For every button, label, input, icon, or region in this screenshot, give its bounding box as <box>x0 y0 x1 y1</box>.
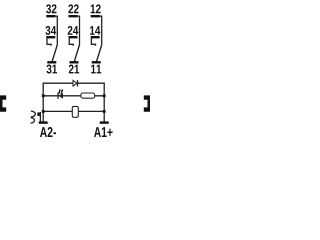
wire top row <box>43 82 105 84</box>
terminal bar A2 <box>39 121 48 123</box>
contact 2 terminal bar 22 <box>69 15 78 17</box>
relay coil K1 <box>72 106 78 117</box>
right edge adjacent module mark <box>144 95 150 111</box>
contact 2 moving arm <box>74 45 79 62</box>
terminal label A1+ <box>94 127 113 137</box>
contact 2 terminal label 21 <box>69 65 79 74</box>
junction right middle <box>103 94 106 97</box>
contact 2 terminal bar 21 <box>70 61 79 63</box>
contact 1 terminal bar 34 <box>46 36 55 38</box>
resistor R1 <box>81 93 95 98</box>
contact 3 terminal label 11 <box>91 65 101 74</box>
wire 34 to NO fixed contact <box>47 38 51 46</box>
contact 2 terminal label 24 <box>68 26 79 35</box>
junction right bottom <box>103 110 106 113</box>
contact 2 terminal bar 24 <box>69 36 78 38</box>
contact 3 moving arm <box>97 45 102 62</box>
contact 1 moving arm <box>52 45 57 62</box>
contact 3 terminal label 12 <box>91 4 101 13</box>
wire 22 to NC fixed contact <box>77 16 80 44</box>
contact 1 terminal bar 32 <box>46 15 55 17</box>
contact 3 terminal bar 11 <box>92 61 101 63</box>
contact 3 terminal bar 12 <box>91 15 100 17</box>
terminal bar A1 <box>100 121 109 123</box>
contact 3 terminal label 14 <box>90 26 100 35</box>
contact 3 terminal bar 14 <box>91 36 100 38</box>
contact 1 terminal bar 31 <box>47 61 56 63</box>
plug connector socket arcs at A2 <box>31 111 36 123</box>
contact 2 terminal label 22 <box>68 4 78 13</box>
wire left vertical A2 rail <box>42 83 44 122</box>
contact 1 terminal label 32 <box>46 4 56 13</box>
contact 1 terminal label 34 <box>45 26 56 35</box>
LED indicator <box>58 89 63 99</box>
wire middle row <box>43 95 104 97</box>
diode V1 <box>73 80 78 86</box>
junction left bottom <box>42 110 45 113</box>
wire 24 to NO fixed contact <box>69 38 73 46</box>
plug connector pin at A2 <box>37 112 41 123</box>
wire bottom row <box>43 110 104 112</box>
wire 12 to NC fixed contact <box>99 16 102 44</box>
wire 14 to NO fixed contact <box>91 38 95 46</box>
junction left middle <box>42 94 45 97</box>
contact 1 terminal label 31 <box>47 65 58 74</box>
left edge adjacent module mark <box>0 95 6 111</box>
wire 32 to NC fixed contact <box>54 16 57 44</box>
terminal label A2- <box>40 127 56 137</box>
wire right vertical A1 rail <box>103 83 105 122</box>
